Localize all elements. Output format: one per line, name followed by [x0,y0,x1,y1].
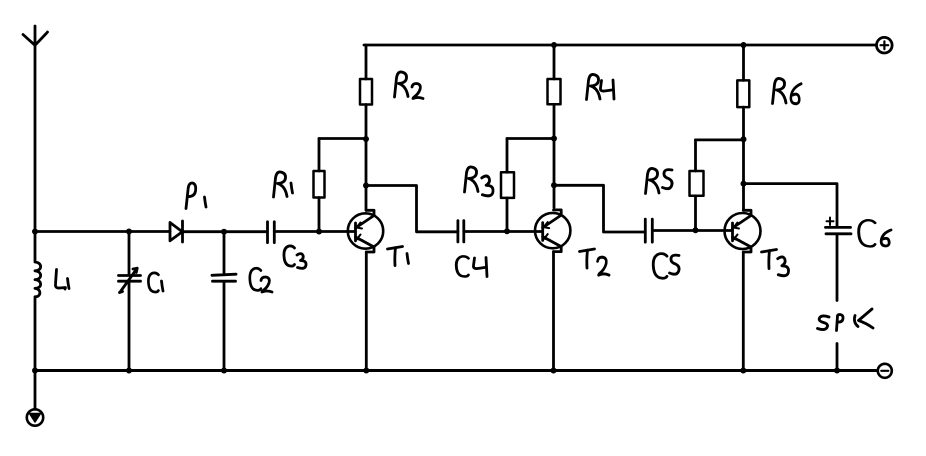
label D1 [186,183,196,209]
diode D1 [170,221,183,242]
bottom rail [35,369,878,372]
transistor T2 [535,210,570,252]
capacitor C5 [645,219,652,242]
node: D1 cathode / C2 junction [221,229,227,235]
node: C1 top / signal wire junction [126,229,132,235]
label C6 [859,220,875,246]
node: top rail / R4 junction [551,42,557,48]
C6 plus polarity mark [827,218,834,226]
node: speaker / bottom rail junction [834,368,840,374]
resistor R2 [365,45,368,210]
variable capacitor C1 [119,232,141,371]
resistor R6 [742,45,745,209]
label R1 [274,172,288,197]
wire: T2 collector to C5 [554,185,645,232]
label C3 [284,246,295,266]
node: R3 / collector line junction [551,136,557,142]
speaker label SPK [818,309,874,331]
label C5 [653,254,667,279]
wire: R5 top to collector line [696,138,744,141]
node: R1 / base junction [316,229,322,235]
wire: T3 emitter to bottom rail [742,252,745,371]
resistor R4 [553,45,556,208]
label R4 [587,74,601,99]
wire: T1 collector to C4 [366,186,458,232]
wire: node to D1 anode [35,230,170,233]
label T2 [580,249,595,268]
wire: C6 to speaker [836,234,839,301]
earth ground symbol [27,371,43,426]
wire: D1 to C3 [183,230,268,233]
- terminal [878,364,892,378]
wire: antenna down to tuned-circuit node [34,46,37,232]
+ terminal [877,37,893,53]
C1 variable arrow [120,268,138,292]
label L1 [55,270,65,290]
node: T3 collector output junction [741,181,747,187]
capacitor C6 (electrolytic) [826,227,852,233]
node: R3 / base junction [504,228,510,234]
label R3 [465,167,479,192]
node: antenna / L1 / C1 / D1 junction [32,229,38,235]
node: C1 / bottom rail junction [126,368,132,374]
node: T2 collector output junction [551,182,557,188]
capacitor C4 [458,221,464,242]
wire: C4 to T2 base [464,230,543,233]
node: L1 / bottom rail junction [32,368,38,374]
node: R1 / collector line junction [363,136,369,142]
capacitor C3 [268,222,275,243]
label R5 [646,168,660,193]
wire: R3 top to collector line [507,137,554,140]
wire: C5 to T3 base [652,229,732,232]
resistor R5 [694,140,697,230]
node: top rail / R6 junction [741,42,747,48]
antenna [23,26,48,46]
resistor R1 [318,139,321,232]
node: T2 emitter / bottom rail junction [551,368,557,374]
wire: speaker to bottom rail [836,344,839,371]
node: C2 / bottom rail junction [221,368,227,374]
wire: R1 top to collector line [319,137,366,140]
resistor R3 [506,139,509,232]
transistor T1 [348,210,383,252]
inductor L1 [35,232,41,371]
node: T1 collector output junction [363,183,369,189]
node: T3 emitter / bottom rail junction [740,368,746,374]
label R6 [773,78,787,103]
top supply rail [364,44,876,47]
label C4 [456,256,468,276]
capacitor C2 [212,232,236,371]
node: R5 / collector line junction [741,136,747,142]
label T1 [388,247,403,266]
wire: C3 to T1 base [274,230,355,233]
node: T1 emitter / bottom rail junction [363,368,369,374]
label C2 [250,268,261,290]
label T3 [762,250,777,269]
wire: T2 emitter to bottom rail [552,252,555,371]
wire: T1 emitter to bottom rail [365,252,368,371]
node: R5 / base junction [693,227,699,233]
transistor T3 [725,210,761,252]
wire: T3 collector to C6 [744,184,838,227]
label R2 [395,72,409,97]
label C1 [148,273,158,292]
